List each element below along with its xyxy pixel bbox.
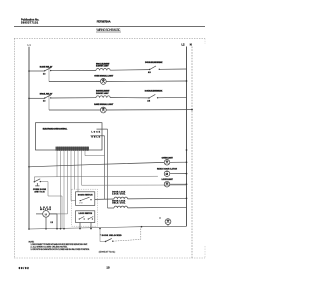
svg-text:2600W 240V: 2600W 240V: [96, 92, 109, 95]
oven light: [164, 160, 170, 166]
star switch wire to junction: [113, 227, 141, 242]
svg-text:3. CIRCUITS SHOWN WITH DOOR CL: 3. CIRCUITS SHOWN WITH DOOR CLOSED AND I…: [31, 248, 90, 251]
EOC exit wires right: [97, 128, 108, 130]
wire row1 mid: [51, 69, 96, 71]
svg-text:LOCK SWITCH: LOCK SWITCH: [79, 213, 93, 215]
wire row1 left: [29, 70, 45, 72]
svg-text:OVEN LIGHT: OVEN LIGHT: [162, 157, 174, 159]
svg-text:1 2: 1 2: [43, 101, 45, 103]
bottom long wire L1 to L2: [29, 226, 187, 229]
svg-text:BAKE SIGNAL LIGHT: BAKE SIGNAL LIGHT: [94, 103, 114, 106]
ribbon pin 7: [77, 151, 79, 192]
svg-text:M: M: [45, 212, 48, 216]
svg-text:LOCK: LOCK: [92, 132, 101, 134]
frame bottom border: [14, 257, 205, 259]
svg-text:WIRING SCHEMATIC: WIRING SCHEMATIC: [96, 28, 121, 32]
star switch: [105, 241, 106, 242]
switch row1 right: [149, 69, 150, 70]
connector strip: [56, 147, 90, 151]
svg-text:UNLK COIL: UNLK COIL: [112, 203, 126, 205]
svg-text:A B: A B: [148, 71, 152, 74]
lock motor right wire: [49, 214, 57, 229]
N rail (dashed): [191, 47, 193, 259]
wire row2 left: [29, 97, 45, 99]
link row1 to indicator: [48, 68, 50, 82]
header publication number text: [21, 19, 39, 25]
svg-text:DOUBLE LINE BREAK: DOUBLE LINE BREAK: [145, 61, 163, 64]
header rule: [14, 26, 205, 28]
ribbon pin 6: [74, 151, 76, 190]
svg-text:SWITCH: SWITCH: [35, 192, 46, 194]
oven lamp bottom: [165, 219, 171, 225]
svg-text:A B: A B: [147, 99, 151, 102]
wire L1 to oven light row: [28, 166, 30, 168]
svg-text:FEF367BAA: FEF367BAA: [97, 20, 111, 24]
lock motor label: [40, 207, 51, 211]
ribbon pin 8 to L2: [82, 151, 187, 186]
indicator light 2: [100, 107, 106, 113]
svg-text:L2: L2: [182, 42, 185, 46]
door switch: [34, 181, 35, 182]
star switch feed: [100, 229, 105, 242]
svg-text:M: M: [166, 172, 169, 176]
door lock switch box 1: [76, 192, 95, 206]
electronic oven control box: [36, 123, 103, 150]
lock coil 2: [114, 206, 128, 208]
wire indicator 1 to L2: [106, 80, 186, 82]
svg-text:(5995377101): (5995377101): [99, 252, 116, 254]
wire row2 mid: [51, 97, 96, 99]
frame top border (dashed): [14, 37, 205, 39]
svg-text:ELECTRONIC OVEN CONTROL: ELECTRONIC OVEN CONTROL: [43, 128, 68, 130]
box1 right wire: [95, 198, 114, 200]
wire coil2 right: [128, 206, 187, 209]
ribbon pin 1: [56, 151, 58, 177]
indicator light 1: [100, 79, 106, 85]
svg-text:09/02: 09/02: [19, 267, 30, 270]
door switch wire row: [34, 176, 158, 181]
svg-text:10: 10: [107, 267, 111, 270]
wire indicator 2 to N: [106, 109, 192, 111]
ribbon pin 2: [60, 151, 62, 229]
broil element coil: [96, 69, 110, 71]
svg-text:5995377101: 5995377101: [21, 22, 39, 25]
svg-text:C NO: C NO: [79, 203, 84, 205]
lock motor label right: [157, 168, 178, 171]
bake element coil: [96, 96, 110, 98]
wire door switch to cluster: [40, 182, 62, 229]
box2 bottom pins: [79, 223, 81, 229]
lock coil 1: [114, 197, 128, 199]
wire to indicator 2: [49, 109, 100, 111]
svg-text:LOCK LIGHT: LOCK LIGHT: [162, 179, 174, 181]
ribbon pin 9: [85, 151, 105, 156]
svg-text:*: *: [160, 217, 161, 221]
svg-text:NOTE:: NOTE:: [29, 241, 35, 243]
wire row1 right: [110, 69, 149, 72]
wire coil1 to L2: [128, 197, 187, 200]
svg-text:1 2: 1 2: [43, 73, 45, 75]
wire row2 right: [110, 97, 149, 99]
svg-text:N: N: [190, 42, 192, 46]
svg-text:REAR DOOR LATCH: REAR DOOR LATCH: [157, 168, 178, 171]
svg-text:OVEN SIGNAL LIGHT: OVEN SIGNAL LIGHT: [94, 74, 114, 77]
L1 rail: [28, 47, 30, 229]
notes text: [29, 241, 116, 253]
vertical from exit 2: [107, 129, 109, 208]
wire to indicator 1: [49, 81, 100, 83]
svg-text:LOCK COIL: LOCK COIL: [112, 193, 126, 195]
svg-text:L1: L1: [28, 43, 32, 47]
ribbon pin 5 to door lock switch: [71, 151, 76, 201]
ribbon pin 3: [63, 151, 65, 229]
wire row1 to L2: [159, 68, 186, 70]
door lock assembly dashed enclosure: [72, 189, 98, 226]
vertical from exit 1: [104, 136, 106, 200]
wire latch motor to L2: [170, 173, 187, 175]
svg-text:1 2: 1 2: [51, 222, 53, 224]
coil2 feed: [108, 207, 115, 209]
latch motor circle: [164, 171, 170, 177]
frame right border (faint, corners): [204, 38, 206, 44]
svg-text:DOOR SWITCH: DOOR SWITCH: [78, 194, 93, 196]
switch row2 right: [148, 97, 149, 98]
svg-text:DOUBLE LINE BREAK: DOUBLE LINE BREAK: [145, 89, 163, 92]
link row2 to indicator 2: [48, 95, 50, 110]
svg-text:3400W 240V: 3400W 240V: [96, 65, 109, 68]
switch row2 left: [44, 97, 45, 98]
svg-text:* DOOR UNLOCKED: * DOOR UNLOCKED: [100, 235, 122, 237]
svg-text:UNLK: UNLK: [92, 137, 101, 139]
switch row1 left: [44, 70, 45, 71]
bake element label: [96, 90, 110, 95]
lock motor: [43, 211, 50, 218]
lock motor bottom wire: [45, 217, 47, 229]
broil element label: [96, 63, 110, 67]
wire oven light to L2: [170, 161, 187, 163]
L2 rail: [186, 47, 188, 227]
ribbon pin 4 to lock motor: [49, 151, 67, 214]
wire row2 to L2: [158, 96, 187, 99]
frame left border: [14, 38, 16, 258]
door lock switch box 2: [76, 211, 95, 223]
